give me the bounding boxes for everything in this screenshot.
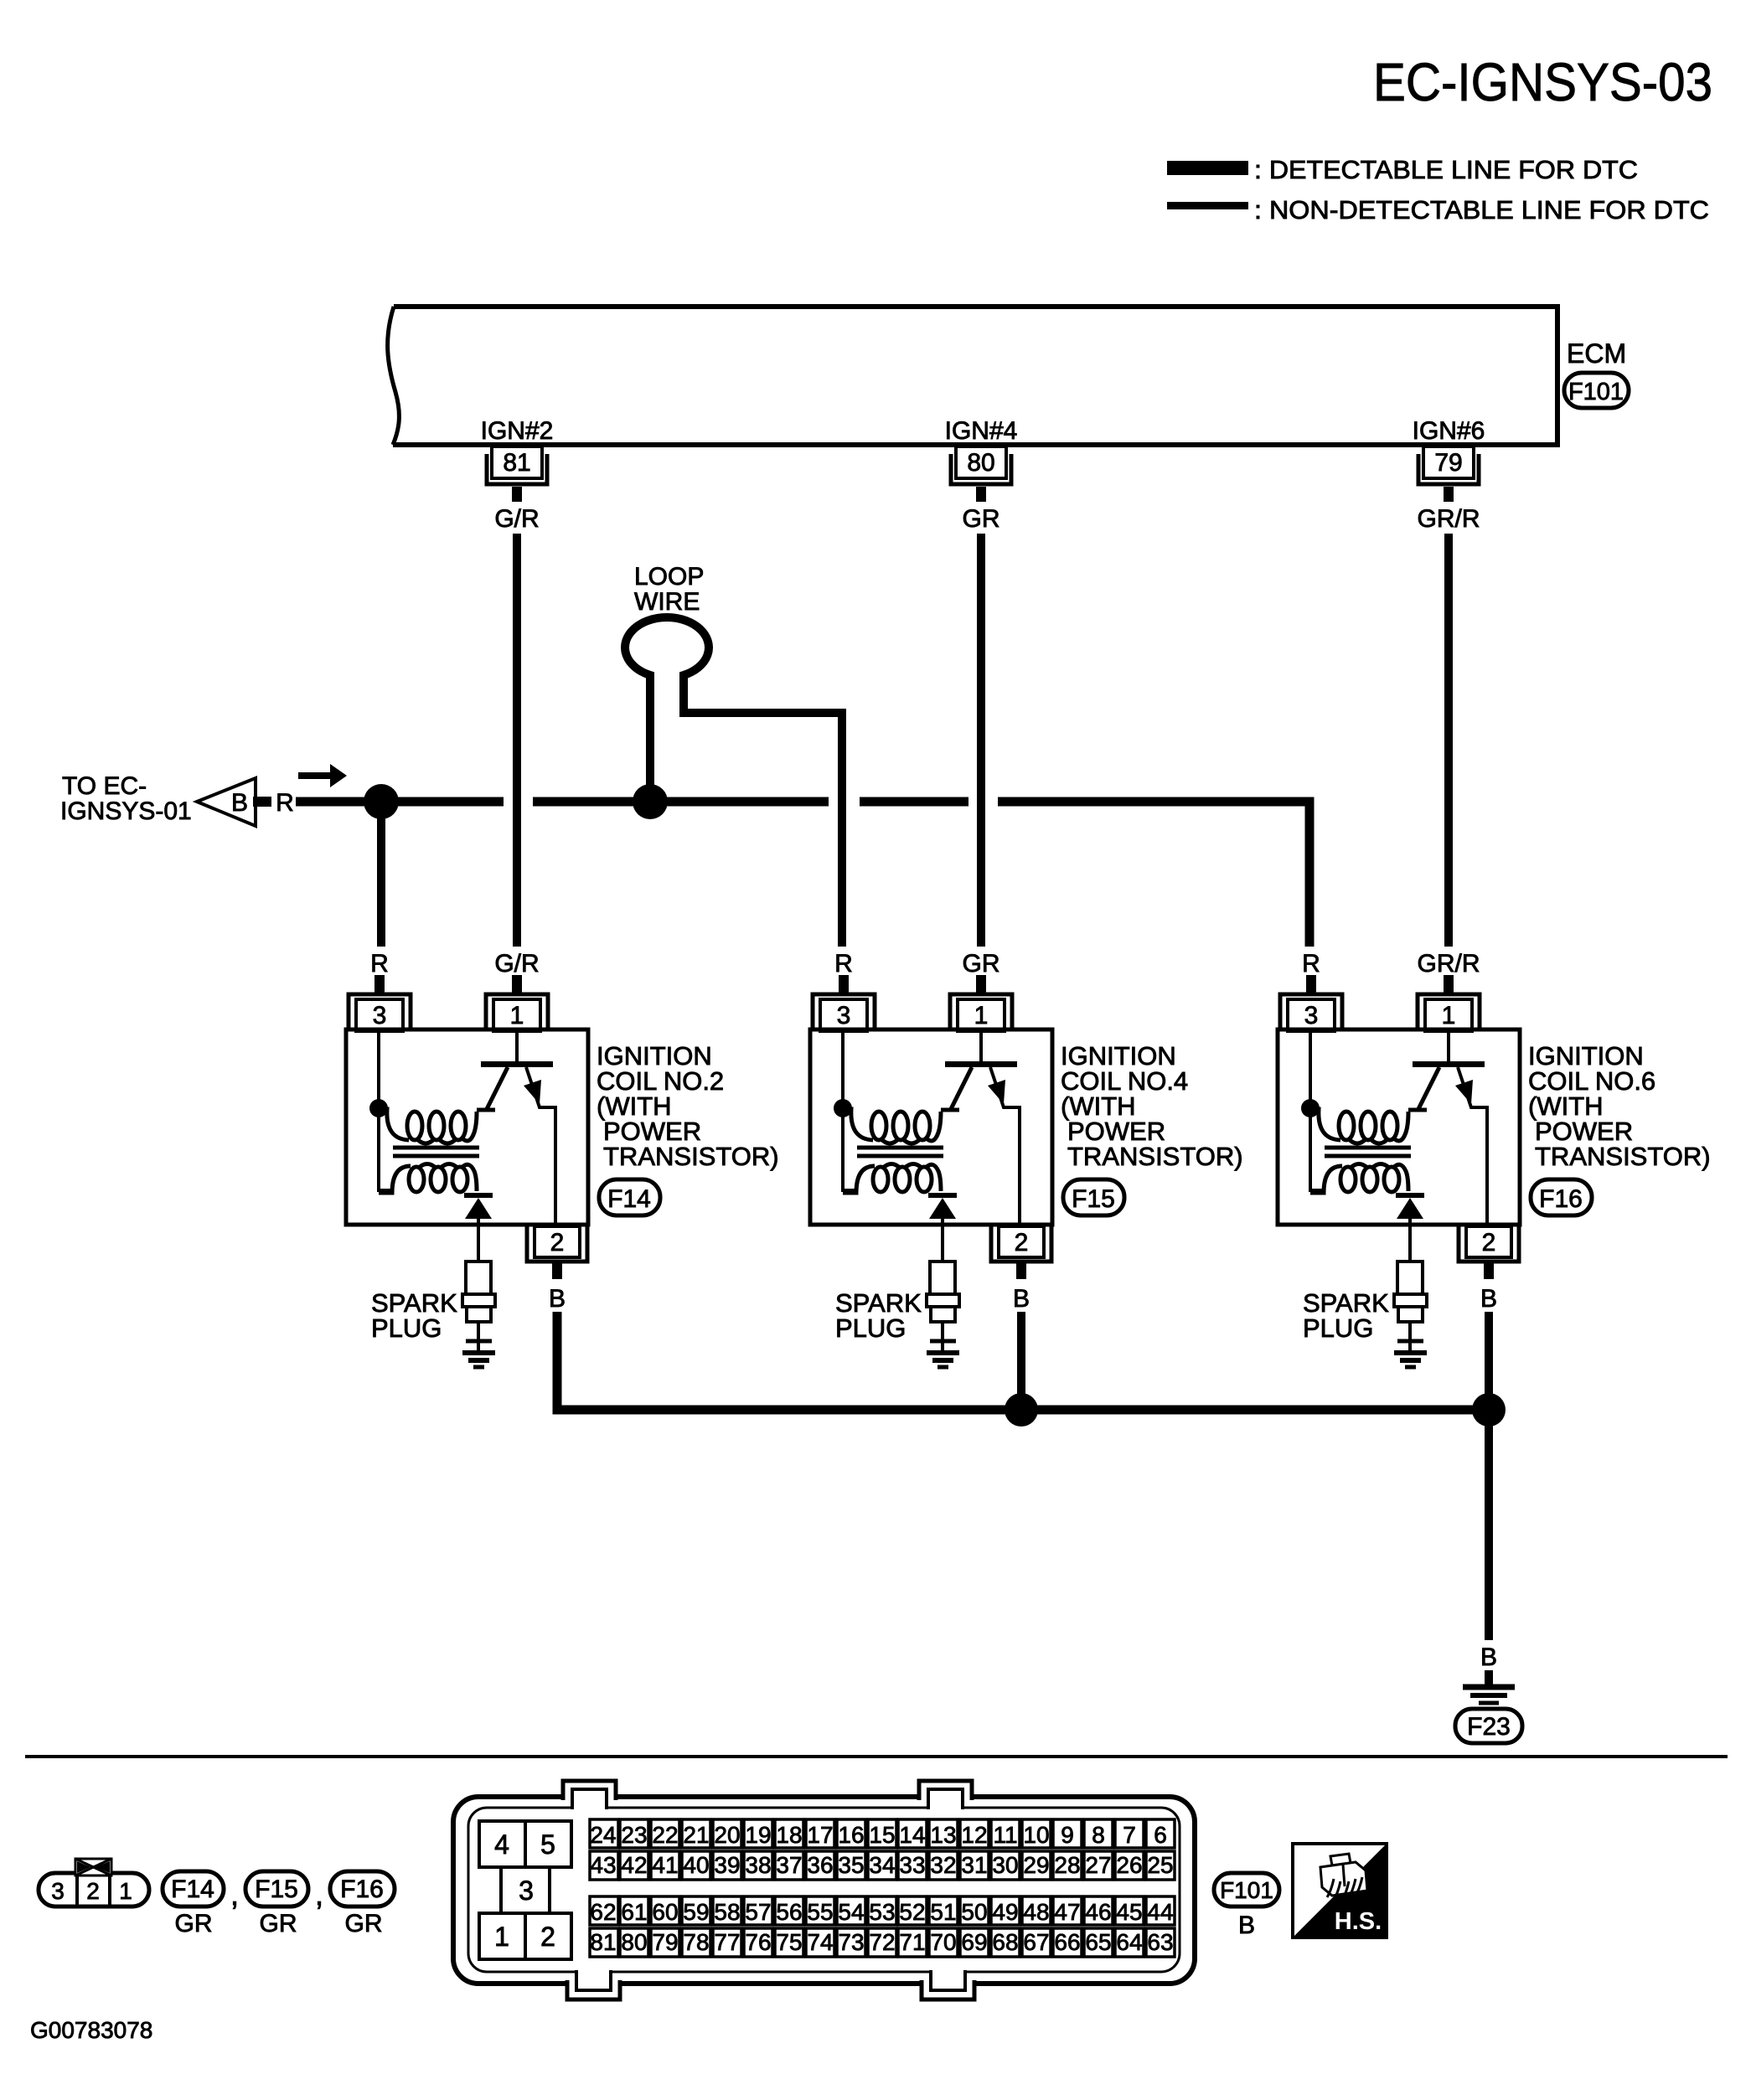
svg-text:2: 2 bbox=[1482, 1229, 1496, 1256]
svg-text:,: , bbox=[230, 1877, 239, 1912]
spark plug ground (coil NO.4) bbox=[927, 1350, 959, 1355]
svg-text:78: 78 bbox=[683, 1929, 709, 1955]
svg-text:76: 76 bbox=[745, 1929, 771, 1955]
svg-text:62: 62 bbox=[590, 1899, 616, 1925]
ECM terminal 80 outer bracket bbox=[951, 454, 1011, 484]
svg-text:GR: GR bbox=[345, 1910, 383, 1937]
svg-text:3: 3 bbox=[1304, 1002, 1319, 1029]
svg-text:: DETECTABLE LINE FOR DTC: : DETECTABLE LINE FOR DTC bbox=[1254, 155, 1638, 184]
svg-text:6: 6 bbox=[1154, 1822, 1167, 1848]
wire R bus segment 3 bbox=[860, 797, 968, 807]
svg-text:B: B bbox=[231, 789, 248, 817]
svg-text:30: 30 bbox=[992, 1852, 1018, 1878]
svg-text:61: 61 bbox=[621, 1899, 647, 1925]
wire R drop from node A to ignition coil no.2 pin 3 bbox=[377, 802, 385, 947]
ignition coil NO.4 pin 1 outer bracket bbox=[950, 994, 1012, 1031]
ignition coil NO.6 power transistor base bar bbox=[1413, 1061, 1485, 1067]
ignition coil NO.4 pin 1 stub bbox=[976, 975, 986, 993]
svg-text:67: 67 bbox=[1023, 1929, 1049, 1955]
svg-text:59: 59 bbox=[683, 1899, 709, 1925]
svg-text:52: 52 bbox=[899, 1899, 925, 1925]
svg-text:60: 60 bbox=[652, 1899, 678, 1925]
wire B from node D down to ground bbox=[1485, 1410, 1493, 1640]
loop wire (keyhole shape) and branch to ignition coil no.4 pin 3 bbox=[625, 617, 842, 947]
svg-text:WIRE: WIRE bbox=[634, 588, 700, 616]
ignition coil NO.2 pin 1 stub bbox=[512, 975, 522, 993]
svg-text:39: 39 bbox=[714, 1852, 740, 1878]
svg-text:33: 33 bbox=[899, 1852, 925, 1878]
svg-text:TRANSISTOR): TRANSISTOR) bbox=[1535, 1142, 1711, 1171]
ignition coil NO.2 pin 2 outer bracket bbox=[527, 1226, 587, 1262]
off-page connector triangle with B bbox=[197, 778, 256, 826]
ignition coil NO.6 body box bbox=[1278, 1029, 1520, 1225]
svg-text:29: 29 bbox=[1023, 1852, 1049, 1878]
svg-text:2: 2 bbox=[550, 1229, 565, 1256]
ignition coil NO.4 power transistor emitter with arrow bbox=[990, 1067, 1020, 1225]
ECM terminal 79 inner box bbox=[1423, 446, 1474, 478]
svg-text:LOOP: LOOP bbox=[634, 563, 704, 591]
svg-text:F14: F14 bbox=[171, 1876, 214, 1903]
ignition coil NO.4 primary winding bbox=[841, 1109, 873, 1140]
ignition coil NO.6 pin 2 inner box bbox=[1466, 1226, 1511, 1257]
ground connector designator F23 oval bbox=[1455, 1709, 1522, 1743]
legend non-detectable line sample bar bbox=[1167, 202, 1248, 209]
H.S. icon connector glyph bbox=[1330, 1854, 1351, 1865]
svg-text:B: B bbox=[1013, 1285, 1030, 1313]
svg-text:45: 45 bbox=[1116, 1899, 1142, 1925]
svg-text:9: 9 bbox=[1061, 1822, 1074, 1848]
ignition coil NO.4 body box bbox=[810, 1029, 1052, 1225]
svg-text:H.S.: H.S. bbox=[1335, 1908, 1382, 1935]
ignition coil NO.2 connector designator F14 oval bbox=[599, 1179, 660, 1215]
svg-text:F15: F15 bbox=[255, 1876, 298, 1903]
ECM terminal 81 inner box bbox=[492, 446, 542, 478]
ignition coil NO.2 power transistor base wire bbox=[515, 1031, 519, 1061]
svg-text:66: 66 bbox=[1054, 1929, 1080, 1955]
ignition coil NO.2 power transistor collector bbox=[487, 1067, 508, 1109]
ECM connector bottom tab 1 bbox=[569, 1979, 618, 1987]
svg-text:G00783078: G00783078 bbox=[30, 2017, 152, 2043]
ECM connector terminal grid upper (24-6 / 43-25) bbox=[590, 1819, 618, 1848]
ignition coil NO.2 pin 3 outer bracket bbox=[349, 994, 411, 1031]
ignition coil NO.6 pin 2 stub bbox=[1484, 1263, 1494, 1279]
svg-text:PLUG: PLUG bbox=[835, 1313, 906, 1343]
svg-text:55: 55 bbox=[807, 1899, 833, 1925]
svg-text:3: 3 bbox=[519, 1876, 534, 1906]
connector designator F14 oval (legend row) bbox=[163, 1871, 224, 1907]
separator line above connector detail section bbox=[25, 1755, 1728, 1758]
ignition coil NO.2 body box bbox=[346, 1029, 588, 1225]
svg-text:57: 57 bbox=[745, 1899, 771, 1925]
svg-text:47: 47 bbox=[1054, 1899, 1080, 1925]
ECM connector cavity 2 bbox=[525, 1913, 571, 1959]
svg-text:50: 50 bbox=[961, 1899, 987, 1925]
ignition coil NO.4 secondary diode (to spark plug) bbox=[928, 1193, 957, 1198]
ECM connector bottom tab 2 bbox=[923, 1979, 973, 1987]
junction node D on B bus bbox=[1472, 1393, 1506, 1427]
svg-text:IGN#2: IGN#2 bbox=[481, 417, 554, 445]
ignition coil NO.4 power transistor base wire bbox=[979, 1031, 983, 1061]
svg-text:8: 8 bbox=[1092, 1822, 1105, 1848]
H.S. (harness side) icon bbox=[1293, 1844, 1387, 1937]
svg-text:81: 81 bbox=[590, 1929, 616, 1955]
legend detectable line sample bar bbox=[1167, 161, 1248, 175]
ignition coil NO.2 pin 3 inner box bbox=[356, 999, 403, 1031]
ECM terminal 79 outer bracket bbox=[1418, 454, 1479, 484]
ECM connector cavity 1 bbox=[479, 1913, 525, 1959]
svg-text:22: 22 bbox=[652, 1822, 678, 1848]
ignition coil NO.4 power transistor collector bbox=[951, 1067, 972, 1109]
svg-text:51: 51 bbox=[930, 1899, 956, 1925]
svg-text:49: 49 bbox=[992, 1899, 1018, 1925]
svg-text:TO EC-: TO EC- bbox=[62, 772, 147, 800]
spark plug ground (coil NO.2) bbox=[462, 1350, 495, 1355]
svg-text:1: 1 bbox=[974, 1002, 989, 1029]
svg-text:F15: F15 bbox=[1072, 1185, 1115, 1213]
svg-text:38: 38 bbox=[745, 1852, 771, 1878]
junction node A on R bus bbox=[364, 784, 399, 819]
svg-text:IGN#4: IGN#4 bbox=[945, 417, 1018, 445]
svg-text:25: 25 bbox=[1147, 1852, 1173, 1878]
ground symbol bbox=[1463, 1685, 1515, 1690]
ignition coil NO.6 pin 1 outer bracket bbox=[1418, 994, 1480, 1031]
junction node B on R bus (loop wire tap) bbox=[633, 784, 668, 819]
connector designator F15 oval (legend row) bbox=[245, 1871, 308, 1907]
wire R bus segment 1 (thick horizontal) bbox=[296, 797, 504, 807]
svg-text:15: 15 bbox=[869, 1822, 895, 1848]
wire stub below terminal 79 bbox=[1444, 487, 1454, 502]
svg-text:: NON-DETECTABLE LINE FOR DTC: : NON-DETECTABLE LINE FOR DTC bbox=[1254, 195, 1709, 224]
ignition coil NO.4 pin 2 stub bbox=[1016, 1263, 1026, 1279]
svg-text:2: 2 bbox=[1015, 1229, 1029, 1256]
ECM box (connector housing, torn left edge) bbox=[393, 307, 1557, 445]
svg-text:68: 68 bbox=[992, 1929, 1018, 1955]
wire stub below terminal 80 bbox=[976, 487, 986, 502]
svg-text:77: 77 bbox=[714, 1929, 740, 1955]
svg-text:1: 1 bbox=[510, 1002, 524, 1029]
wire B bus segment to node D bbox=[1021, 1406, 1489, 1415]
ignition coil NO.2 internal wire from pin 3 bbox=[379, 1031, 392, 1190]
ECM box torn left edge bbox=[388, 307, 400, 445]
wire stub below terminal 81 bbox=[512, 487, 522, 502]
direction arrow (rightward) bbox=[298, 772, 332, 779]
ignition coil NO.6 power transistor emitter with arrow bbox=[1458, 1067, 1487, 1225]
ignition coil NO.6 pin 3 outer bracket bbox=[1280, 994, 1342, 1031]
svg-text:F16: F16 bbox=[340, 1876, 384, 1903]
ignition coil NO.4 connector designator F15 oval bbox=[1063, 1179, 1124, 1215]
ignition coil NO.6 internal junction dot bbox=[1301, 1099, 1320, 1117]
ignition coil NO.6 pin 3 inner box bbox=[1288, 999, 1335, 1031]
connector keyway (bowtie) on pill bbox=[75, 1859, 111, 1876]
ignition coil NO.4 pin 2 outer bracket bbox=[991, 1226, 1051, 1262]
ECM connector cavity 3 (open) bbox=[499, 1867, 503, 1913]
ECM connector designator F101 oval bbox=[1564, 373, 1629, 408]
svg-text:28: 28 bbox=[1054, 1852, 1080, 1878]
ECM terminal 80 inner box bbox=[956, 446, 1006, 478]
svg-text:F101: F101 bbox=[1568, 379, 1624, 405]
ignition coil NO.4 power transistor base bar bbox=[945, 1061, 1017, 1067]
ignition coil NO.6 primary winding bbox=[1309, 1109, 1340, 1140]
svg-text:54: 54 bbox=[838, 1899, 864, 1925]
ignition coil NO.2 pin 3 stub bbox=[374, 975, 385, 993]
svg-text:1: 1 bbox=[1442, 1002, 1456, 1029]
ECM connector top tab 2 bbox=[921, 1793, 970, 1801]
svg-text:1: 1 bbox=[494, 1922, 509, 1952]
svg-text:IGN#6: IGN#6 bbox=[1413, 417, 1485, 445]
svg-text:71: 71 bbox=[899, 1929, 925, 1955]
svg-text:44: 44 bbox=[1147, 1899, 1173, 1925]
svg-text:F16: F16 bbox=[1539, 1185, 1583, 1213]
ignition coil NO.4 pin 2 inner box bbox=[999, 1226, 1044, 1257]
ignition coil NO.4 secondary winding bbox=[843, 1166, 875, 1193]
svg-text:13: 13 bbox=[930, 1822, 956, 1848]
svg-text:7: 7 bbox=[1123, 1822, 1136, 1848]
svg-text:58: 58 bbox=[714, 1899, 740, 1925]
svg-text:74: 74 bbox=[807, 1929, 833, 1955]
svg-text:34: 34 bbox=[869, 1852, 895, 1878]
wire GR/R from ECM terminal 79 down to ignition coil (detectable thick line) bbox=[1444, 534, 1453, 947]
ignition coil NO.4 pin 3 inner box bbox=[820, 999, 867, 1031]
svg-text:G/R: G/R bbox=[494, 505, 539, 533]
ECM connector top tab 1 bbox=[565, 1793, 614, 1801]
svg-text:81: 81 bbox=[503, 449, 530, 477]
svg-text:F23: F23 bbox=[1467, 1713, 1511, 1741]
ignition coil NO.2 pin 1 inner box bbox=[493, 999, 540, 1031]
svg-text:11: 11 bbox=[993, 1822, 1017, 1848]
svg-text:B: B bbox=[1238, 1912, 1255, 1939]
svg-text:26: 26 bbox=[1116, 1852, 1142, 1878]
ECM connector cavity 5 bbox=[525, 1821, 571, 1867]
svg-text:31: 31 bbox=[961, 1852, 987, 1878]
connector designator F101 oval (bottom) bbox=[1214, 1873, 1279, 1907]
svg-text:27: 27 bbox=[1085, 1852, 1111, 1878]
svg-text:10: 10 bbox=[1023, 1822, 1049, 1848]
svg-text:PLUG: PLUG bbox=[1303, 1313, 1373, 1343]
svg-text:GR: GR bbox=[175, 1910, 213, 1937]
ignition coil NO.6 power transistor base wire bbox=[1447, 1031, 1450, 1061]
ignition coil NO.2 transformer core bbox=[393, 1146, 479, 1150]
svg-text:GR: GR bbox=[260, 1910, 297, 1937]
wire R bus segment 4 with corner down to ignition coil no.6 pin 3 bbox=[998, 802, 1309, 947]
ECM terminal 81 outer bracket bbox=[487, 454, 547, 484]
svg-text:IGNSYS-01: IGNSYS-01 bbox=[60, 797, 192, 825]
svg-text:ECM: ECM bbox=[1567, 338, 1626, 369]
svg-text:TRANSISTOR): TRANSISTOR) bbox=[603, 1142, 779, 1171]
svg-text:GR: GR bbox=[963, 950, 1000, 978]
svg-text:79: 79 bbox=[652, 1929, 678, 1955]
svg-text:69: 69 bbox=[961, 1929, 987, 1955]
svg-text:40: 40 bbox=[683, 1852, 709, 1878]
svg-text:53: 53 bbox=[869, 1899, 895, 1925]
svg-text:16: 16 bbox=[838, 1822, 864, 1848]
ignition coil NO.4 internal wire from pin 3 bbox=[843, 1031, 856, 1190]
svg-text:F101: F101 bbox=[1220, 1877, 1273, 1903]
svg-text:23: 23 bbox=[621, 1822, 647, 1848]
svg-text:18: 18 bbox=[776, 1822, 802, 1848]
wire B from ignition coil no.2 down and along bottom bus (thick) bbox=[557, 1312, 1021, 1410]
svg-text:41: 41 bbox=[652, 1852, 678, 1878]
spark plug symbol (coil NO.6) bbox=[1397, 1262, 1423, 1294]
svg-text:G/R: G/R bbox=[494, 950, 539, 978]
svg-text:1: 1 bbox=[119, 1878, 132, 1904]
svg-text:3: 3 bbox=[373, 1002, 387, 1029]
ECM connector inner wall bbox=[468, 1808, 1180, 1972]
ignition coil NO.6 secondary winding bbox=[1310, 1166, 1342, 1193]
svg-text:R: R bbox=[1302, 950, 1320, 978]
spark plug symbol (coil NO.4) bbox=[930, 1262, 955, 1294]
svg-text:14: 14 bbox=[899, 1822, 925, 1848]
ignition coil NO.4 pin 3 stub bbox=[839, 975, 849, 993]
svg-text:80: 80 bbox=[621, 1929, 647, 1955]
ECM connector outer housing bbox=[453, 1797, 1195, 1984]
ground stub bbox=[1485, 1670, 1493, 1686]
svg-text:R: R bbox=[370, 950, 389, 978]
ignition coil NO.4 pin 1 inner box bbox=[958, 999, 1005, 1031]
ignition coil NO.2 pin 2 inner box bbox=[535, 1226, 580, 1257]
svg-text:12: 12 bbox=[961, 1822, 987, 1848]
svg-text:48: 48 bbox=[1023, 1899, 1049, 1925]
svg-text:B: B bbox=[1480, 1643, 1497, 1671]
svg-text:46: 46 bbox=[1085, 1899, 1111, 1925]
ignition coil NO.6 secondary diode (to spark plug) bbox=[1396, 1193, 1424, 1198]
ECM connector terminal grid lower (62-44 / 81-63) bbox=[590, 1896, 618, 1925]
ignition coil NO.2 secondary winding bbox=[379, 1166, 411, 1193]
svg-text:70: 70 bbox=[930, 1929, 956, 1955]
ignition coil NO.2 pin 2 stub bbox=[552, 1263, 562, 1279]
svg-text:37: 37 bbox=[776, 1852, 802, 1878]
wire GR from ECM terminal 80 down to ignition coil (detectable thick line) bbox=[977, 534, 985, 947]
wire B from ignition coil no.6 down to junction bbox=[1485, 1312, 1493, 1410]
connector designator F16 oval (legend row) bbox=[330, 1871, 395, 1907]
ignition coil NO.4 internal junction dot bbox=[834, 1099, 852, 1117]
svg-text:PLUG: PLUG bbox=[371, 1313, 442, 1343]
svg-text:3: 3 bbox=[837, 1002, 851, 1029]
svg-text:63: 63 bbox=[1147, 1929, 1173, 1955]
svg-text:43: 43 bbox=[590, 1852, 616, 1878]
svg-text:21: 21 bbox=[683, 1822, 709, 1848]
svg-text:5: 5 bbox=[540, 1829, 555, 1860]
svg-text:20: 20 bbox=[714, 1822, 740, 1848]
ignition coil NO.2 power transistor base bar bbox=[481, 1061, 553, 1067]
ignition coil NO.6 internal wire from pin 3 bbox=[1310, 1031, 1324, 1190]
ignition coil NO.6 pin 1 inner box bbox=[1425, 999, 1472, 1031]
svg-text:72: 72 bbox=[869, 1929, 895, 1955]
ignition coil NO.6 transformer core bbox=[1325, 1146, 1411, 1150]
spark plug ground (coil NO.6) bbox=[1394, 1350, 1427, 1355]
ignition coil NO.2 pin 1 outer bracket bbox=[486, 994, 548, 1031]
svg-text:4: 4 bbox=[494, 1829, 509, 1860]
svg-text:80: 80 bbox=[967, 449, 994, 477]
coil connector face view pill (terminals 3 2 1) bbox=[39, 1873, 149, 1907]
ignition coil NO.6 power transistor collector bbox=[1418, 1067, 1439, 1109]
ignition coil NO.2 secondary diode (to spark plug) bbox=[464, 1193, 493, 1198]
svg-text:B: B bbox=[1480, 1285, 1497, 1313]
svg-text:73: 73 bbox=[838, 1929, 864, 1955]
ignition coil NO.6 connector designator F16 oval bbox=[1531, 1179, 1592, 1215]
svg-text:3: 3 bbox=[51, 1878, 65, 1904]
svg-text:56: 56 bbox=[776, 1899, 802, 1925]
svg-text:64: 64 bbox=[1116, 1929, 1142, 1955]
svg-text:R: R bbox=[834, 950, 853, 978]
ignition coil NO.6 pin 3 stub bbox=[1306, 975, 1316, 993]
ignition coil NO.4 pin 3 outer bracket bbox=[813, 994, 875, 1031]
svg-text:R: R bbox=[276, 789, 294, 817]
spark plug symbol (coil NO.2) bbox=[466, 1262, 491, 1294]
svg-text:TRANSISTOR): TRANSISTOR) bbox=[1067, 1142, 1243, 1171]
svg-text:2: 2 bbox=[86, 1878, 100, 1904]
svg-text:B: B bbox=[549, 1285, 566, 1313]
svg-text:19: 19 bbox=[745, 1822, 771, 1848]
svg-text:2: 2 bbox=[540, 1922, 555, 1952]
svg-text:79: 79 bbox=[1434, 449, 1462, 477]
wire stub from triangle bbox=[253, 797, 271, 807]
ignition coil NO.2 primary winding bbox=[377, 1109, 409, 1140]
wire B from ignition coil no.4 down to junction bbox=[1017, 1312, 1025, 1410]
svg-text:F14: F14 bbox=[607, 1185, 651, 1213]
ignition coil NO.6 pin 2 outer bracket bbox=[1459, 1226, 1519, 1262]
svg-text:36: 36 bbox=[807, 1852, 833, 1878]
svg-text:65: 65 bbox=[1085, 1929, 1111, 1955]
svg-text:GR: GR bbox=[963, 505, 1000, 533]
svg-text:35: 35 bbox=[838, 1852, 864, 1878]
svg-text:,: , bbox=[315, 1877, 323, 1912]
svg-text:75: 75 bbox=[776, 1929, 802, 1955]
ignition coil NO.4 transformer core bbox=[857, 1146, 943, 1150]
svg-text:24: 24 bbox=[590, 1822, 616, 1848]
ignition coil NO.6 pin 1 stub bbox=[1444, 975, 1454, 993]
wire R bus segment 2 bbox=[533, 797, 829, 807]
svg-text:EC-IGNSYS-03: EC-IGNSYS-03 bbox=[1373, 52, 1712, 112]
svg-text:GR/R: GR/R bbox=[1418, 950, 1480, 978]
svg-text:GR/R: GR/R bbox=[1418, 505, 1480, 533]
ECM connector cavity 4 bbox=[479, 1821, 525, 1867]
svg-text:17: 17 bbox=[807, 1822, 833, 1848]
junction node C on B bus bbox=[1005, 1393, 1038, 1427]
svg-text:42: 42 bbox=[621, 1852, 647, 1878]
ignition coil NO.2 internal junction dot bbox=[369, 1099, 388, 1117]
ignition coil NO.2 power transistor emitter with arrow bbox=[526, 1067, 555, 1225]
wire G/R from ECM terminal 81 down to ignition coil (detectable thick line) bbox=[513, 534, 521, 947]
svg-text:32: 32 bbox=[930, 1852, 956, 1878]
